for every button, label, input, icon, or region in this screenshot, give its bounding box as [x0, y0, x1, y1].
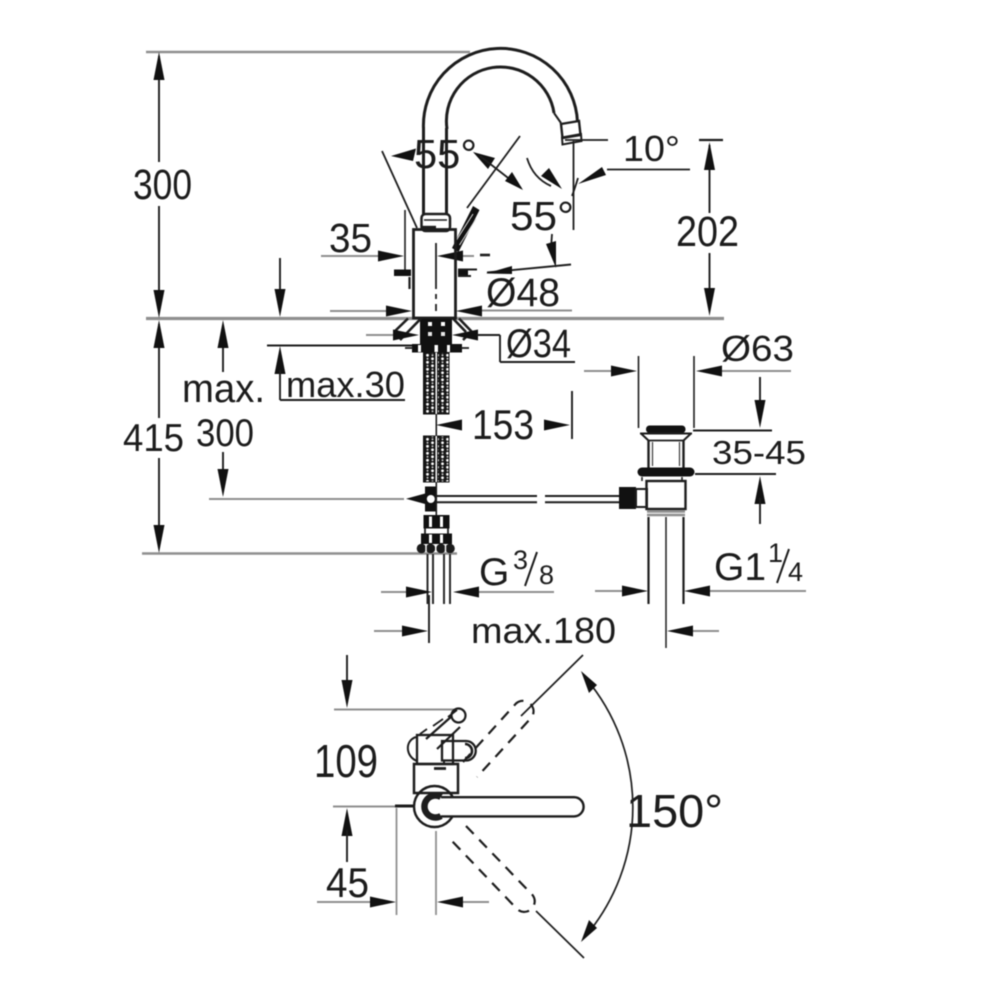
dashed handle positions — [452, 701, 535, 912]
svg-text:3: 3 — [513, 545, 528, 575]
svg-text:150°: 150° — [626, 785, 723, 837]
hose connection block — [417, 482, 455, 553]
threaded shank upper — [424, 353, 450, 483]
svg-text:55°: 55° — [510, 193, 574, 239]
svg-text:G1: G1 — [714, 546, 766, 589]
svg-text:4: 4 — [788, 557, 803, 587]
svg-text:max.: max. — [182, 367, 265, 411]
svg-text:109: 109 — [314, 735, 378, 787]
dimension 35 — [321, 215, 474, 262]
drain assembly — [619, 356, 695, 648]
swing arc 150 deg — [521, 655, 723, 958]
svg-text:10°: 10° — [623, 128, 680, 169]
water stream line — [573, 141, 575, 230]
side nubs — [394, 270, 411, 277]
dimension 415 (left lower) — [123, 320, 184, 553]
svg-text:Ø34: Ø34 — [506, 322, 571, 366]
svg-text:1: 1 — [768, 538, 783, 568]
dimension G 3/8 — [381, 545, 554, 598]
spout tip — [554, 113, 561, 123]
55 deg annotation #1 — [382, 131, 523, 228]
svg-text:Ø48: Ø48 — [486, 271, 560, 315]
small dashes — [448, 710, 457, 717]
pivot circle and handle — [414, 786, 584, 827]
svg-text:153: 153 — [472, 401, 534, 448]
svg-text:Ø63: Ø63 — [721, 328, 794, 369]
svg-text:8: 8 — [539, 560, 554, 590]
tilted lever line left — [382, 151, 417, 228]
spout top reference line — [146, 51, 470, 54]
55 deg annotation #2 — [480, 158, 578, 274]
counter top line — [146, 317, 724, 320]
spout tube — [426, 716, 452, 739]
dimension 109 — [314, 655, 454, 862]
svg-text:300: 300 — [196, 412, 254, 455]
dimension max.30 — [267, 258, 434, 405]
svg-text:415: 415 — [123, 417, 184, 460]
side nub capsule — [442, 741, 476, 761]
svg-text:35-45: 35-45 — [712, 434, 806, 471]
dimension 300 (left) — [133, 52, 192, 318]
svg-text:300: 300 — [133, 161, 192, 209]
dimension diameter 63 — [584, 328, 794, 377]
dimension 10 deg — [565, 128, 690, 184]
dimension diameter 48 — [330, 271, 572, 317]
flexible hoses — [428, 554, 451, 604]
dimension max.180 — [374, 595, 719, 651]
gooseneck spout — [423, 48, 581, 230]
pop-up rod and pivot — [406, 487, 620, 512]
dimension max.300 — [182, 320, 404, 499]
faucet head top view — [408, 709, 476, 794]
svg-text:45: 45 — [326, 859, 369, 906]
dimension 153 — [436, 391, 572, 448]
svg-text:35: 35 — [329, 215, 372, 261]
svg-text:max.180: max.180 — [471, 610, 616, 651]
lever axis extension — [467, 136, 520, 208]
cartridge cap — [421, 214, 450, 231]
dimension diameter 34 — [366, 322, 575, 366]
mounting flange with hatch — [394, 319, 474, 353]
locknut — [412, 344, 462, 353]
svg-text:202: 202 — [676, 208, 739, 256]
dimension G 1 1/4 — [595, 538, 806, 597]
dimension 202 (right) — [676, 140, 739, 316]
dimension 35-45 — [693, 377, 806, 524]
svg-text:G: G — [479, 551, 509, 594]
lever (hatched) — [452, 206, 480, 252]
dimension 45 — [317, 808, 489, 915]
faucet body — [394, 210, 477, 318]
svg-text:max.30: max.30 — [286, 364, 405, 405]
hose bottom reference line — [142, 552, 457, 555]
